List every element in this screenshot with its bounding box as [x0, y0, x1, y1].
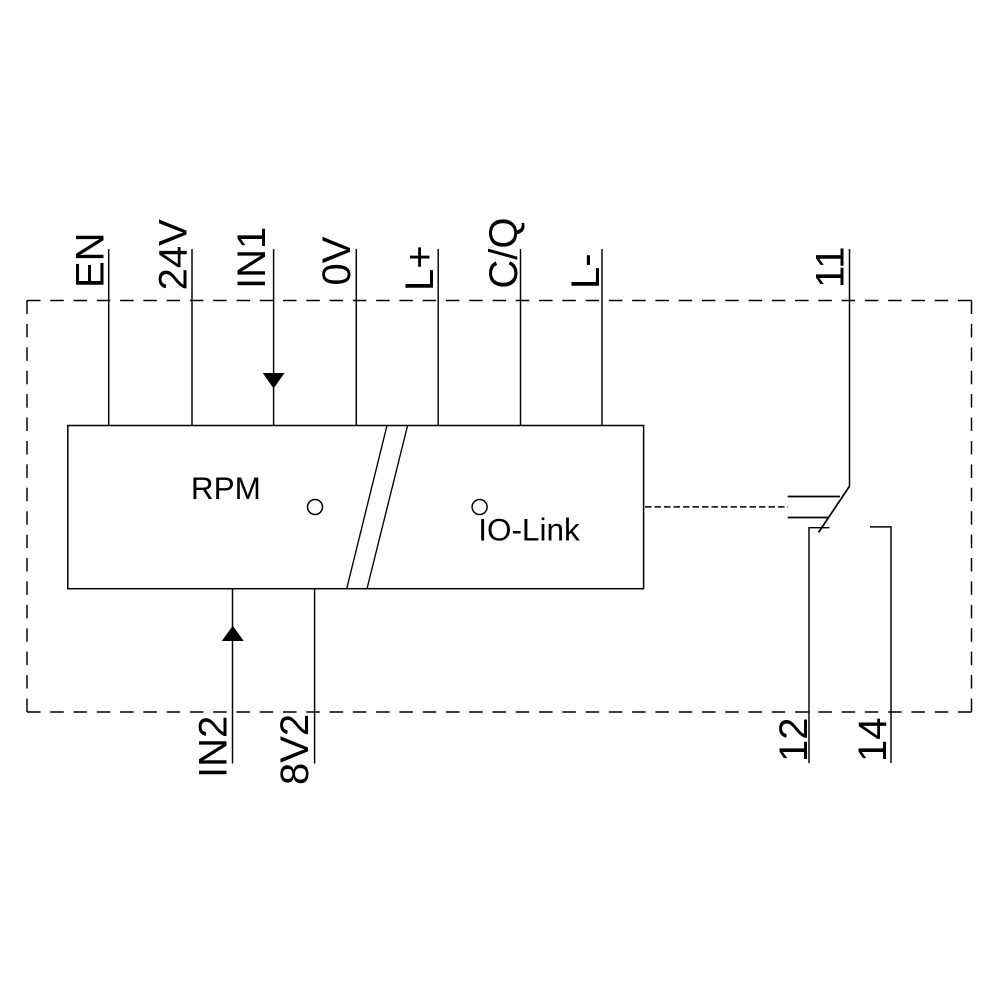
device boundary dashed border: right edge [971, 301, 973, 713]
svg-text:L-: L- [564, 253, 608, 289]
svg-text:EN: EN [69, 232, 113, 288]
svg-text:24V: 24V [152, 219, 196, 290]
wire EN terminal [108, 249, 110, 426]
svg-text:12: 12 [772, 718, 816, 763]
wire 24V terminal [191, 249, 193, 426]
wire 0V terminal [355, 249, 357, 426]
contact fixed throw lower (NO 14) [788, 517, 829, 519]
device boundary dashed border: bottom edge [27, 711, 972, 713]
wire IN1 terminal [273, 249, 275, 426]
wire C/Q terminal [520, 249, 522, 426]
svg-text:IO-Link: IO-Link [478, 512, 580, 548]
arrow IN1 (down) [263, 373, 285, 389]
svg-text:RPM: RPM [191, 470, 261, 506]
svg-text:0V: 0V [315, 236, 359, 285]
device boundary dashed border: top edge [27, 300, 972, 302]
device boundary dashed border: left edge [26, 301, 28, 713]
wire 12 lead [809, 528, 829, 763]
separator diagonal 1 [347, 426, 387, 589]
wire 14 lead [870, 527, 891, 763]
wire IN2 terminal (bottom) [232, 589, 234, 764]
svg-text:L+: L+ [398, 245, 442, 291]
svg-text:11: 11 [809, 246, 853, 288]
arrow IN2 (up) [222, 626, 244, 641]
separator diagonal 2 [367, 426, 408, 589]
svg-text:IN2: IN2 [192, 716, 236, 778]
svg-text:14: 14 [851, 718, 895, 763]
mechanical linkage (dashed) [645, 506, 788, 508]
wire 11 terminal [849, 249, 851, 486]
svg-text:IN1: IN1 [230, 227, 274, 289]
svg-text:C/Q: C/Q [482, 217, 526, 288]
device box U1 [68, 426, 644, 589]
indicator circle (IO-Link side) [472, 500, 487, 515]
relay changeover contact: moving blade [819, 486, 850, 532]
contact fixed throw upper (NC 12) [788, 496, 840, 498]
wire 8V2 terminal (bottom) [314, 589, 316, 764]
svg-text:8V2: 8V2 [273, 714, 317, 785]
indicator circle (RPM side) [308, 500, 323, 515]
wire L+ terminal [437, 249, 439, 426]
wire L- terminal [601, 249, 603, 426]
